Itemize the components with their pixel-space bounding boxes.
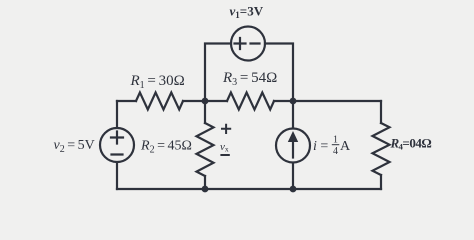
wire: top loop right (V1 to node): [265, 44, 293, 102]
resistor R3: [227, 93, 274, 110]
label vx plus: [221, 124, 231, 134]
node junction bottom-left: [202, 186, 209, 193]
node junction top-left: [202, 98, 209, 105]
node junction bottom-right: [290, 186, 297, 193]
wire: top loop left (node to V1): [205, 44, 231, 102]
wire: middle rail between R1 and R3: [183, 100, 227, 102]
wire: middle rail left segment: [117, 100, 136, 102]
svg-text:R2 = 45Ω: R2 = 45Ω: [140, 139, 192, 156]
wire: current source upper stub: [292, 101, 294, 128]
svg-text:i =: i =: [313, 139, 328, 154]
svg-text:v1=3V: v1=3V: [230, 4, 264, 21]
wire: R2 branch lower stub: [204, 176, 206, 189]
wire: R4 branch lower stub: [380, 175, 382, 189]
svg-text:vx: vx: [220, 141, 229, 154]
svg-text:R3 = 54Ω: R3 = 54Ω: [222, 70, 277, 88]
current source arrow head: [288, 131, 298, 142]
svg-text:R4=04Ω: R4=04Ω: [390, 136, 432, 152]
voltage source V2: [100, 128, 134, 162]
svg-text:4: 4: [333, 146, 338, 157]
wire: middle rail right segment: [274, 100, 381, 102]
wire: current source lower stub: [292, 163, 294, 189]
wire: left branch upper: [116, 101, 118, 128]
voltage source V1: [231, 27, 265, 61]
wire: R4 branch upper stub: [380, 101, 382, 123]
wire: left branch lower: [116, 163, 118, 190]
resistor R1: [136, 93, 183, 110]
resistor R2: [197, 123, 214, 176]
resistor R4: [373, 123, 390, 175]
wire: bottom rail: [117, 188, 381, 190]
wire: R2 branch upper stub: [204, 101, 206, 123]
svg-text:R1 = 30Ω: R1 = 30Ω: [130, 73, 185, 91]
svg-text:1: 1: [333, 135, 338, 146]
node junction top-right: [290, 98, 297, 105]
label vx minus: [220, 154, 229, 156]
svg-text:v2 = 5V: v2 = 5V: [54, 138, 95, 155]
current source I1: [276, 129, 310, 163]
svg-text:A: A: [340, 139, 351, 154]
